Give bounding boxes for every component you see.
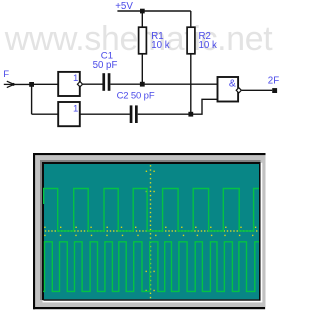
svg-text:+5V: +5V xyxy=(115,1,133,12)
wire U3 out to 2F xyxy=(242,89,273,91)
node junction (input) xyxy=(29,82,34,87)
inverter U1 xyxy=(58,72,82,96)
nand gate U3 xyxy=(218,77,242,102)
wire node down xyxy=(31,84,33,114)
svg-text:C2 50 pF: C2 50 pF xyxy=(117,90,155,101)
trace A (input F) xyxy=(44,189,259,232)
node junction (R2/C2) xyxy=(188,112,193,117)
svg-text:10 k: 10 k xyxy=(151,40,169,51)
wire C1 to node xyxy=(110,83,142,85)
label R2 10 k xyxy=(199,31,217,51)
label C1 50 pF xyxy=(93,50,118,71)
wire U2 out to C2 xyxy=(80,113,130,115)
output terminal 2F xyxy=(268,75,279,93)
node junction (R1/C1) xyxy=(140,82,145,87)
sample dots below axis xyxy=(44,235,253,236)
resistor R1 xyxy=(139,11,147,84)
graticule tick dots beside centre line xyxy=(146,171,155,292)
capacitor C1 xyxy=(102,73,110,91)
wire node to U3 input A xyxy=(142,83,218,85)
wire to U2 input xyxy=(32,113,59,115)
svg-text:2F: 2F xyxy=(268,75,279,86)
svg-text:F: F xyxy=(3,69,9,80)
svg-text:10 k: 10 k xyxy=(199,40,217,51)
svg-text:1: 1 xyxy=(73,73,78,84)
graticule center horizontal dotted line xyxy=(45,230,258,231)
svg-text:&: & xyxy=(229,78,236,89)
sample dots above axis xyxy=(44,227,256,228)
oscilloscope screen xyxy=(44,164,259,299)
wire node to U1 input xyxy=(32,83,59,85)
svg-text:50 pF: 50 pF xyxy=(93,60,118,71)
wire C2 to node xyxy=(138,113,191,115)
power rail +5V xyxy=(115,1,191,12)
junction on +5V rail xyxy=(140,9,145,14)
oscilloscope display frame xyxy=(33,153,266,309)
resistor R2 xyxy=(187,11,195,114)
wire input to node xyxy=(13,83,31,85)
graticule center vertical dotted line xyxy=(150,165,151,298)
trace B (output 2F) xyxy=(43,242,259,292)
wire U1 out to C1 xyxy=(83,83,103,85)
buffer U2 xyxy=(58,102,80,126)
label R1 10 k xyxy=(151,31,169,51)
capacitor C2 xyxy=(130,105,138,123)
svg-text:1: 1 xyxy=(73,103,78,114)
input terminal F xyxy=(3,69,15,88)
wire node to U3 input B xyxy=(191,99,218,114)
